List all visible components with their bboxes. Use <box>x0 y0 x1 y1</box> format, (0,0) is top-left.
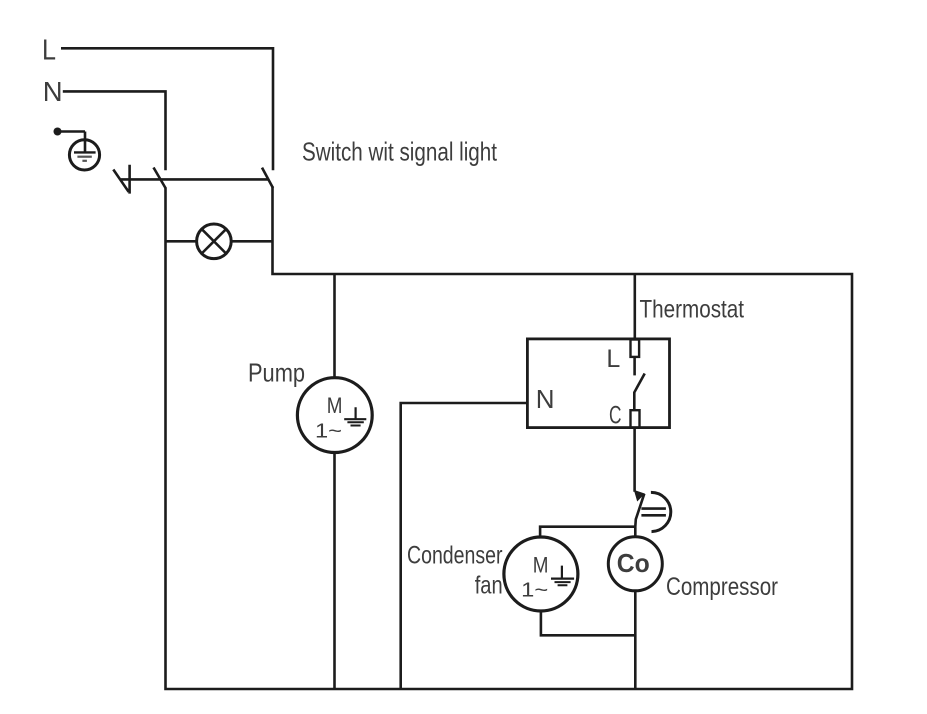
wire: condenser fan bottom rail <box>541 611 635 635</box>
switch pole 1 blade <box>154 168 166 189</box>
wire: below terminal L <box>633 357 636 375</box>
wire L: horizontal then down to switch pole 2 <box>61 48 273 170</box>
thermal overload protector arc <box>651 492 671 531</box>
fan internal earth symbol <box>551 566 574 579</box>
svg-text:L: L <box>606 345 620 373</box>
protective earth symbol (circle with ground bars) <box>69 140 99 170</box>
svg-text:Co: Co <box>617 548 650 578</box>
thermostat terminal L <box>631 340 640 357</box>
wire: thermostat C down to overload <box>633 428 636 492</box>
condenser fan motor M1~ <box>504 537 578 611</box>
svg-text:C: C <box>609 402 622 430</box>
node PE dot <box>54 128 62 136</box>
wire PE: dot to earth symbol <box>59 132 85 153</box>
svg-text:1~: 1~ <box>521 579 548 602</box>
wire: thermostat feed <box>633 274 636 340</box>
svg-text:Compressor: Compressor <box>666 573 778 601</box>
wire: pump branch top <box>333 274 336 378</box>
wire: condenser fan top rail <box>540 527 635 538</box>
compressor circle Co <box>608 537 662 591</box>
thermostat switch blade <box>634 374 644 411</box>
svg-text:Switch wit signal light: Switch wit signal light <box>302 137 498 167</box>
thermostat box <box>527 339 669 428</box>
svg-text:Pump: Pump <box>248 357 305 387</box>
switch pole 2 blade <box>262 168 273 188</box>
wire: compressor to bottom rail <box>634 591 637 689</box>
switch actuator mark (arrow) <box>113 165 129 194</box>
svg-text:Thermostat: Thermostat <box>640 296 745 324</box>
pump motor M1~ <box>297 378 372 453</box>
svg-text:1~: 1~ <box>315 420 342 443</box>
wire N: horizontal then down to switch pole 1 <box>63 91 166 170</box>
thermal overload blade <box>635 494 644 537</box>
thermal overload arrow head <box>634 490 645 502</box>
svg-text:N: N <box>536 384 555 414</box>
svg-text:Condenser: Condenser <box>407 541 503 569</box>
wire: pump branch bottom <box>333 453 336 689</box>
svg-text:fan: fan <box>475 571 503 599</box>
switch linkage line <box>121 178 269 181</box>
signal lamp <box>197 224 232 259</box>
pump internal earth symbol <box>344 407 366 419</box>
wire: thermostat N to return line <box>401 403 528 689</box>
thermostat terminal C <box>631 410 640 427</box>
main enclosure box with left feed from switch pole 1 and right feed from pole 2 <box>166 186 853 689</box>
thermal overload bimetal bars <box>641 509 666 516</box>
wire: lamp branch right lead <box>231 240 272 243</box>
svg-text:M: M <box>327 393 343 418</box>
svg-text:N: N <box>43 76 63 107</box>
wire: lamp branch left lead <box>166 240 197 243</box>
svg-text:M: M <box>533 552 549 577</box>
svg-text:L: L <box>42 35 56 67</box>
